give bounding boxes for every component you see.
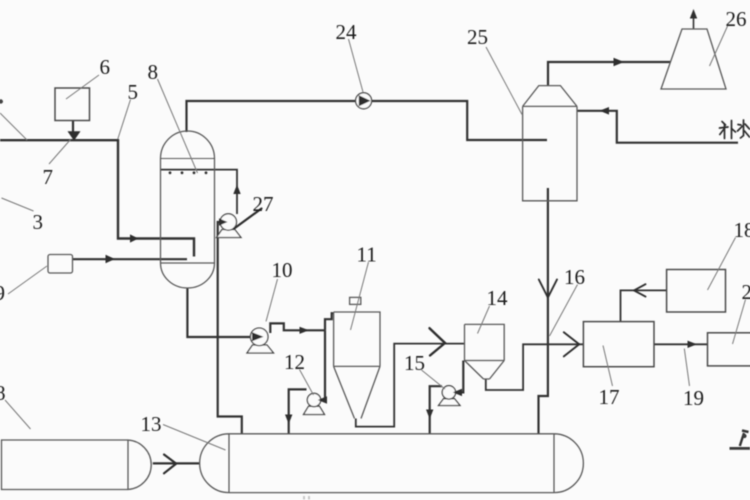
svg-text:9: 9: [0, 281, 5, 305]
svg-text:11: 11: [357, 243, 377, 267]
svg-text:8: 8: [148, 60, 159, 84]
svg-text:12: 12: [284, 350, 305, 374]
svg-text:15: 15: [404, 351, 425, 375]
svg-text:14: 14: [487, 286, 509, 310]
svg-text:25: 25: [467, 25, 488, 49]
svg-text:8: 8: [0, 381, 6, 405]
svg-text:17: 17: [599, 385, 620, 409]
svg-text:10: 10: [272, 258, 293, 282]
svg-text:24: 24: [336, 20, 358, 44]
svg-text:13: 13: [141, 412, 162, 436]
svg-text:3: 3: [33, 210, 44, 234]
svg-text:5: 5: [128, 80, 139, 104]
svg-text:2: 2: [742, 280, 750, 304]
svg-text:26: 26: [726, 7, 747, 31]
svg-text:16: 16: [564, 265, 585, 289]
svg-text:19: 19: [683, 386, 704, 410]
svg-text:27: 27: [253, 192, 274, 216]
svg-text:6: 6: [100, 55, 111, 79]
svg-text:18: 18: [734, 218, 750, 242]
svg-text:7: 7: [43, 165, 54, 189]
